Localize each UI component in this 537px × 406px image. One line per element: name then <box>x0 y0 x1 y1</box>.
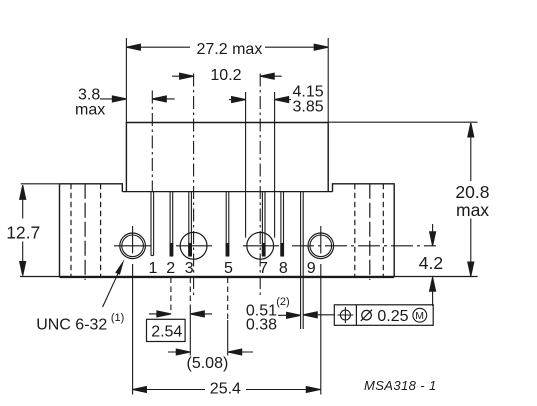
svg-text:12.7: 12.7 <box>6 222 40 242</box>
svg-text:3.85: 3.85 <box>293 98 324 115</box>
pin2 ext line (dashed) <box>170 278 172 314</box>
hole 1 (screw hole, double circle) <box>120 233 146 259</box>
hole 1 horizontal center line <box>114 245 151 247</box>
left end center line <box>84 184 86 280</box>
svg-text:4.2: 4.2 <box>419 253 443 273</box>
right end dashed line a <box>354 184 356 277</box>
feature control frame <box>334 305 433 326</box>
svg-text:7: 7 <box>259 260 268 277</box>
svg-text:max: max <box>456 200 489 220</box>
tab <box>126 123 328 192</box>
pin 9 (with 0.51/0.38 ext below) <box>301 192 304 329</box>
dim 3.8 max <box>100 96 175 102</box>
svg-text:MSA318 - 1: MSA318 - 1 <box>364 378 437 393</box>
svg-text:5: 5 <box>224 260 233 277</box>
body outline <box>60 184 395 277</box>
pin 8 <box>281 192 284 256</box>
pin 7 <box>262 192 265 256</box>
pin5 ext line <box>227 278 229 321</box>
pin 5 <box>226 192 229 256</box>
tab ledge line <box>122 191 332 193</box>
dim 25.4 <box>132 387 320 393</box>
svg-text:UNC 6-32: UNC 6-32 <box>36 316 107 333</box>
pin 2 <box>170 192 173 256</box>
dim 20.8 max <box>329 122 478 276</box>
right end dashed line b <box>382 184 384 277</box>
dim 12.7 <box>20 184 60 276</box>
hole 2 horizontal center line <box>176 245 212 247</box>
position symbol <box>340 310 350 320</box>
pin3 ext line <box>189 278 191 311</box>
hole 1 vertical center line / 25.4 ext <box>132 226 134 395</box>
svg-text:M: M <box>415 310 424 322</box>
svg-text:8: 8 <box>279 260 288 277</box>
4.15 ext line left <box>245 92 247 238</box>
svg-text:25.4: 25.4 <box>210 380 241 397</box>
svg-text:(1): (1) <box>111 312 124 324</box>
dim 2.54 arrows <box>149 311 212 317</box>
dim 27.2 max <box>126 38 328 123</box>
left end dashed line b <box>100 184 102 277</box>
hole 3 horizontal center line <box>243 245 279 247</box>
hole 4 horizontal center line / 4.2 ext <box>292 245 436 247</box>
hole 4 (screw hole, double circle) <box>308 233 334 259</box>
hole 3 (single circle) <box>247 232 274 259</box>
svg-text:2.54: 2.54 <box>151 323 182 340</box>
leader UNC 6-32 <box>103 265 122 307</box>
dim 0.51/0.38 arrows <box>278 312 334 319</box>
hole2 center line vertical (dash-dot) <box>193 74 195 296</box>
dim 4.2 <box>430 224 436 306</box>
hole3 center line vertical (dash-dot) <box>259 74 261 296</box>
pin 1 center line (dash-dot) <box>151 91 153 192</box>
hole 2 (single circle) <box>180 232 207 259</box>
hole 4 vertical center line / 25.4 ext <box>320 226 322 395</box>
svg-text:3: 3 <box>185 260 194 277</box>
svg-text:9: 9 <box>307 260 316 277</box>
svg-text:0.25: 0.25 <box>377 308 408 325</box>
pin 1 <box>151 192 154 256</box>
left end dashed line a <box>70 184 72 277</box>
body bottom edge (long, extends for 12.7 and 20.8 ext) <box>20 276 478 278</box>
diameter symbol <box>362 310 372 320</box>
svg-text:2: 2 <box>166 260 175 277</box>
pin 3 <box>189 192 192 256</box>
svg-text:(5.08): (5.08) <box>187 355 229 372</box>
dim 10.2 <box>172 73 282 79</box>
4.15 ext line right <box>274 92 276 238</box>
right end center line <box>369 184 371 280</box>
svg-text:max: max <box>75 102 105 119</box>
svg-text:(2): (2) <box>276 296 289 308</box>
dim 4.15/3.85 <box>229 97 291 103</box>
M circle <box>413 308 427 322</box>
svg-text:20.8: 20.8 <box>455 182 489 202</box>
svg-text:0.38: 0.38 <box>246 317 277 334</box>
svg-text:27.2 max: 27.2 max <box>197 41 263 58</box>
svg-text:1: 1 <box>149 260 158 277</box>
2.54 box <box>147 319 186 341</box>
dim (5.08) arrows <box>168 349 253 355</box>
svg-text:10.2: 10.2 <box>210 67 241 84</box>
